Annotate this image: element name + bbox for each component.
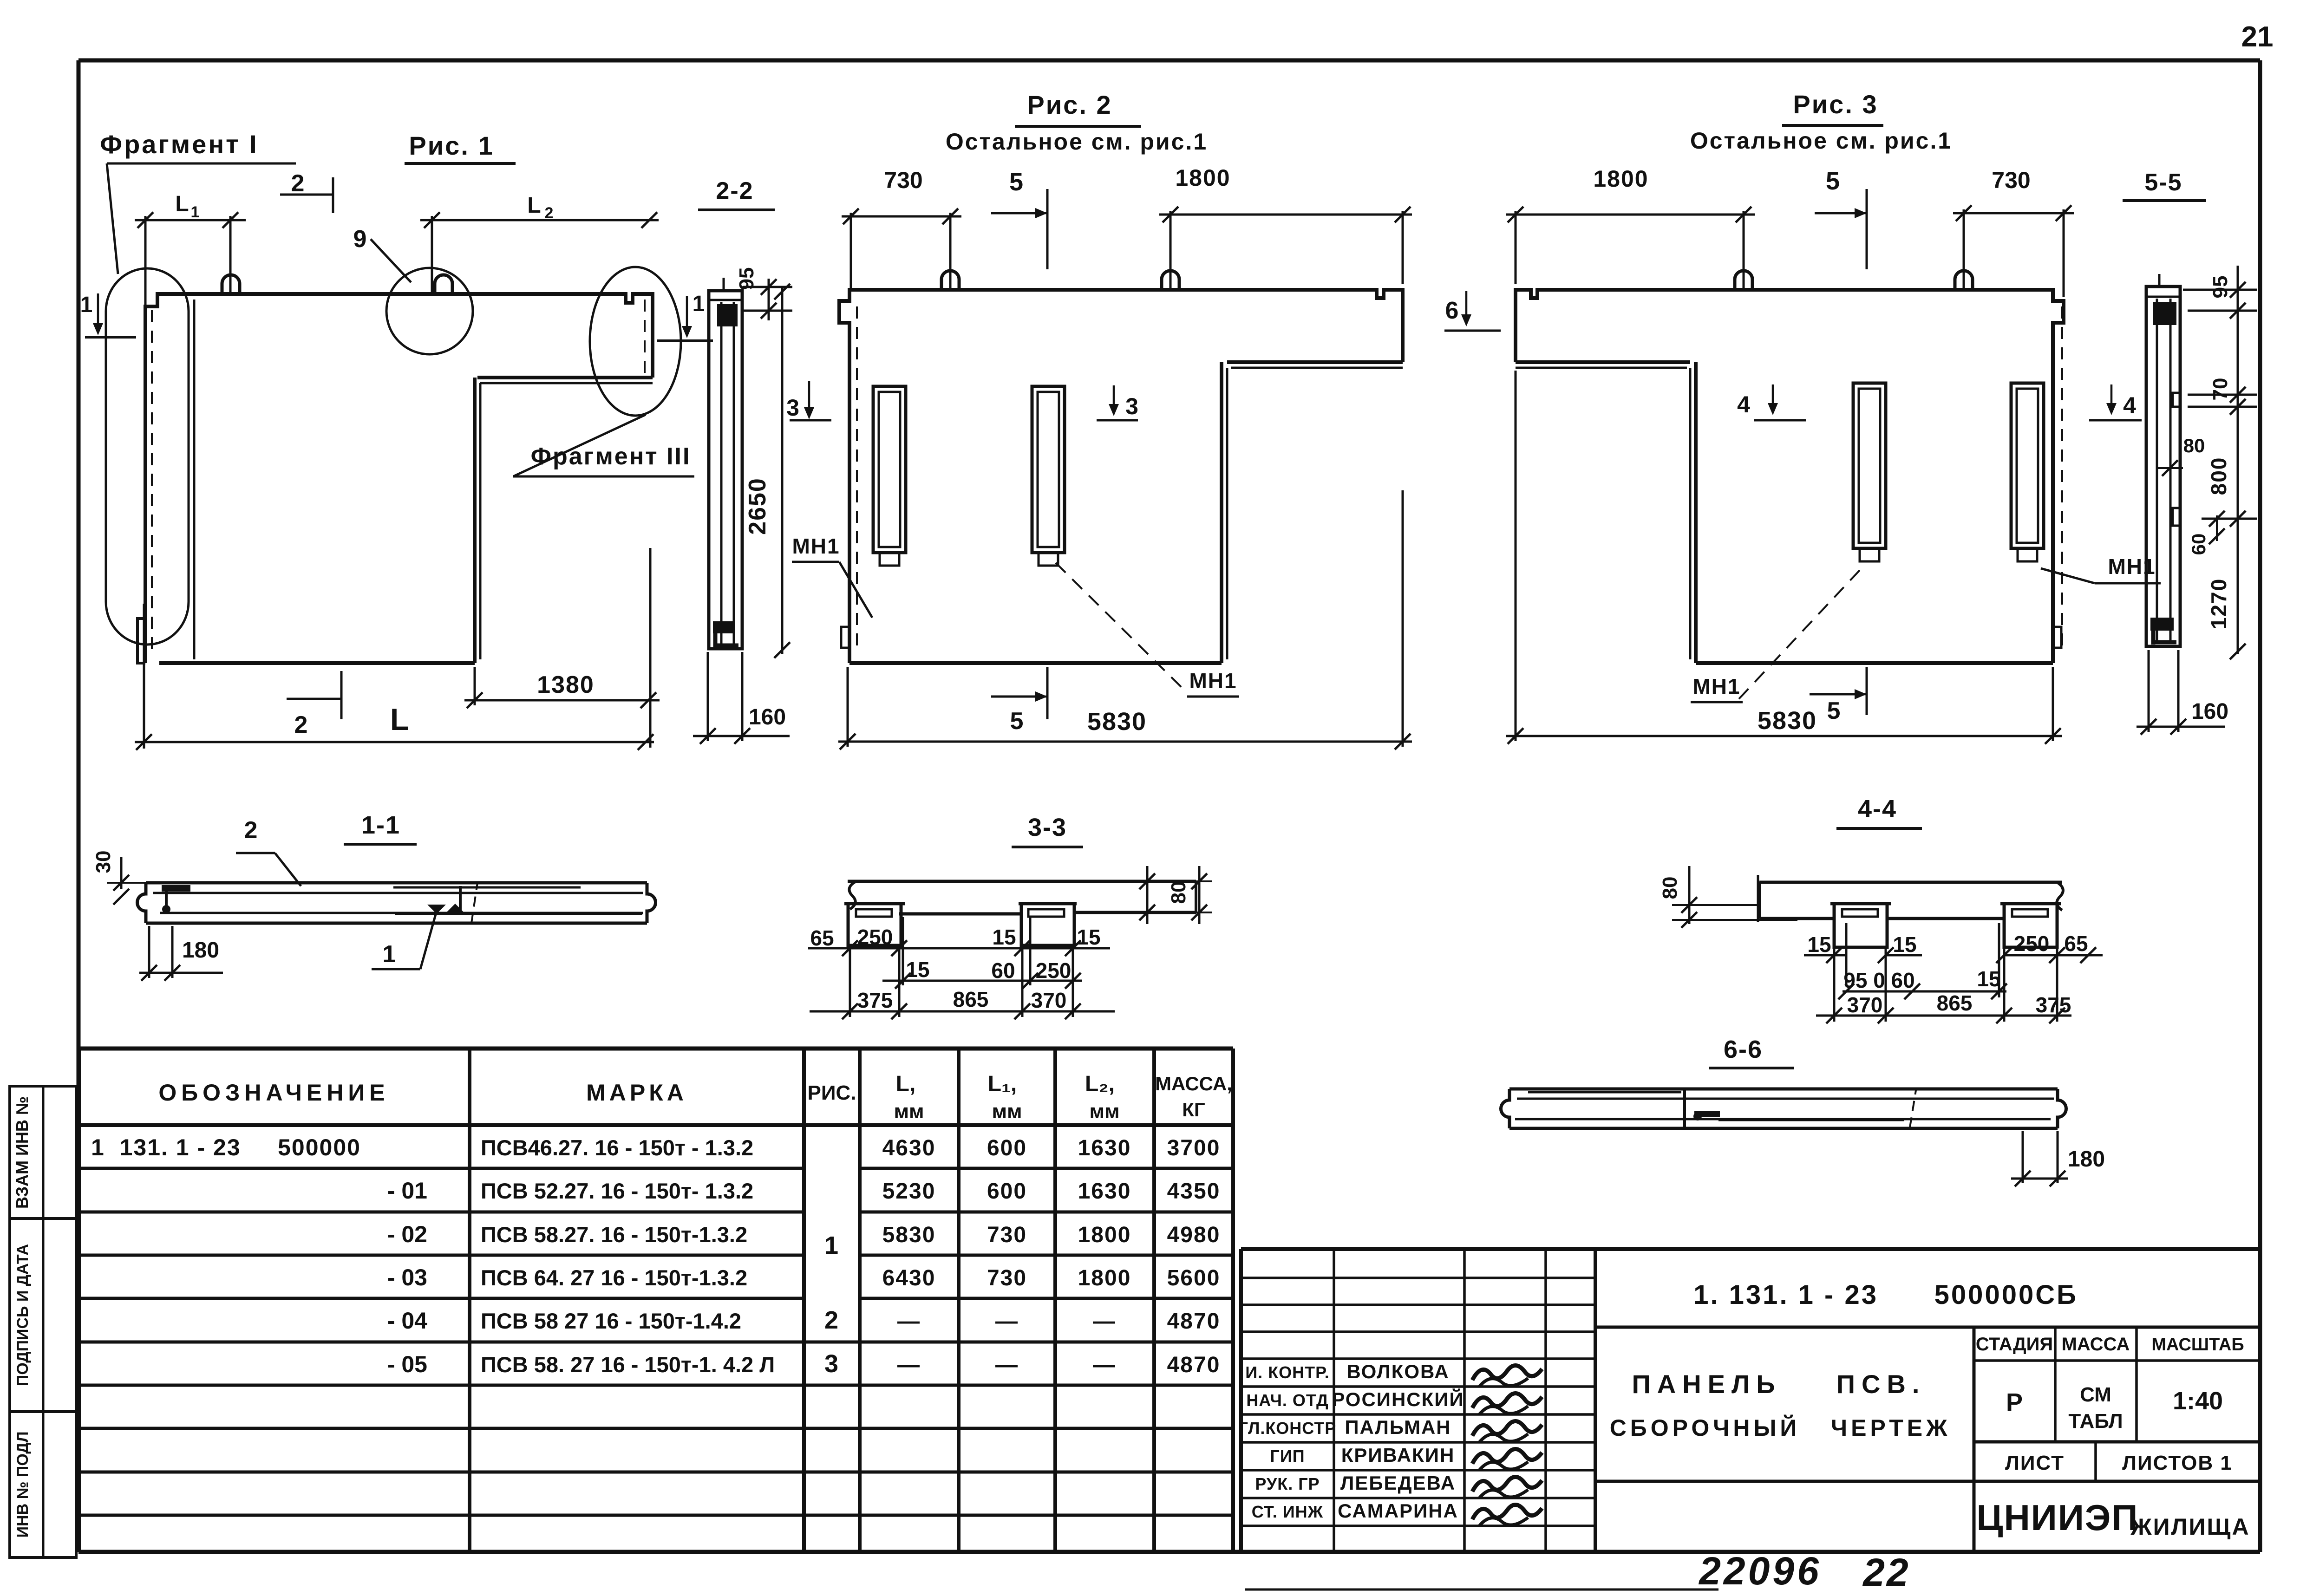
svg-text:2: 2 bbox=[291, 170, 305, 197]
svg-text:22096: 22096 bbox=[1698, 1549, 1822, 1593]
svg-text:РИС.: РИС. bbox=[808, 1081, 856, 1104]
svg-text:ПОДПИСЬ И ДАТА: ПОДПИСЬ И ДАТА bbox=[14, 1244, 32, 1386]
svg-text:5830: 5830 bbox=[882, 1223, 936, 1247]
svg-text:250: 250 bbox=[857, 925, 893, 949]
svg-text:22: 22 bbox=[1862, 1550, 1910, 1594]
svg-text:95: 95 bbox=[2209, 276, 2232, 299]
svg-text:РОСИНСКИЙ: РОСИНСКИЙ bbox=[1332, 1388, 1464, 1410]
svg-text:3: 3 bbox=[786, 395, 799, 421]
svg-text:730: 730 bbox=[884, 167, 922, 193]
svg-text:1800: 1800 bbox=[1593, 166, 1648, 192]
svg-text:МН1: МН1 bbox=[792, 534, 840, 558]
svg-text:60: 60 bbox=[2188, 534, 2209, 555]
svg-text:СТ. ИНЖ: СТ. ИНЖ bbox=[1252, 1502, 1323, 1521]
svg-text:ПСВ 58 27 16 - 150т-1.4.2: ПСВ 58 27 16 - 150т-1.4.2 bbox=[481, 1309, 741, 1333]
svg-text:5830: 5830 bbox=[1087, 708, 1147, 736]
svg-text:ПСВ 52.27. 16 - 150т- 1.3.2: ПСВ 52.27. 16 - 150т- 1.3.2 bbox=[481, 1179, 753, 1203]
svg-text:4870: 4870 bbox=[1167, 1309, 1221, 1334]
svg-text:15: 15 bbox=[1893, 932, 1916, 957]
svg-text:65: 65 bbox=[810, 926, 834, 950]
svg-text:САМАРИНА: САМАРИНА bbox=[1338, 1500, 1458, 1522]
svg-text:Остальное см. рис.1: Остальное см. рис.1 bbox=[1690, 128, 1952, 154]
svg-text:Рис. 1: Рис. 1 bbox=[409, 131, 494, 160]
svg-text:ЛИСТОВ 1: ЛИСТОВ 1 bbox=[2122, 1452, 2233, 1474]
svg-text:МН1: МН1 bbox=[2108, 554, 2156, 579]
svg-text:370: 370 bbox=[1031, 988, 1067, 1012]
svg-text:370: 370 bbox=[1847, 993, 1883, 1017]
svg-text:- 03: - 03 bbox=[387, 1264, 427, 1290]
svg-text:1270: 1270 bbox=[2207, 578, 2231, 629]
svg-text:—: — bbox=[995, 1309, 1019, 1334]
svg-text:4350: 4350 bbox=[1167, 1179, 1221, 1204]
svg-text:ЖИЛИЩА: ЖИЛИЩА bbox=[2130, 1514, 2250, 1540]
svg-text:9: 9 bbox=[353, 226, 367, 253]
svg-text:РУК. ГР: РУК. ГР bbox=[1255, 1474, 1320, 1493]
svg-text:- 02: - 02 bbox=[387, 1221, 427, 1247]
svg-text:5830: 5830 bbox=[1758, 707, 1817, 735]
svg-text:2: 2 bbox=[244, 817, 258, 844]
svg-text:1630: 1630 bbox=[1078, 1179, 1131, 1204]
svg-text:3700: 3700 bbox=[1167, 1136, 1221, 1160]
svg-text:1800: 1800 bbox=[1175, 165, 1230, 191]
svg-text:865: 865 bbox=[1937, 991, 1973, 1015]
svg-text:6: 6 bbox=[1445, 297, 1459, 324]
svg-text:И. КОНТР.: И. КОНТР. bbox=[1245, 1363, 1329, 1382]
svg-text:5: 5 bbox=[1010, 708, 1024, 735]
svg-text:- 01: - 01 bbox=[387, 1178, 427, 1204]
svg-text:4-4: 4-4 bbox=[1858, 795, 1897, 823]
svg-text:21: 21 bbox=[2241, 21, 2274, 53]
svg-text:1: 1 bbox=[191, 203, 200, 221]
svg-text:730: 730 bbox=[987, 1266, 1027, 1290]
svg-text:L: L bbox=[527, 193, 541, 218]
svg-text:ЦНИИЭП: ЦНИИЭП bbox=[1977, 1497, 2139, 1538]
svg-text:160: 160 bbox=[2191, 699, 2228, 724]
svg-text:3: 3 bbox=[1125, 393, 1138, 419]
svg-text:ВОЛКОВА: ВОЛКОВА bbox=[1346, 1361, 1449, 1382]
svg-text:80: 80 bbox=[2183, 435, 2205, 456]
svg-text:4: 4 bbox=[1737, 391, 1750, 417]
svg-text:ЛИСТ: ЛИСТ bbox=[2005, 1452, 2065, 1474]
svg-text:- 05: - 05 bbox=[387, 1351, 427, 1377]
svg-text:6-6: 6-6 bbox=[1724, 1036, 1763, 1063]
svg-text:МАССА,: МАССА, bbox=[1155, 1073, 1232, 1094]
svg-text:4870: 4870 bbox=[1167, 1353, 1221, 1377]
svg-text:5600: 5600 bbox=[1167, 1266, 1221, 1290]
svg-text:5: 5 bbox=[1827, 697, 1841, 724]
svg-text:15: 15 bbox=[1807, 932, 1831, 957]
svg-text:ЛЕБЕДЕВА: ЛЕБЕДЕВА bbox=[1340, 1472, 1456, 1494]
svg-text:Фрагмент I: Фрагмент I bbox=[100, 130, 258, 159]
svg-text:1:40: 1:40 bbox=[2173, 1387, 2223, 1415]
svg-text:Рис. 2: Рис. 2 bbox=[1027, 90, 1112, 119]
svg-text:30: 30 bbox=[92, 851, 115, 873]
svg-text:ПСВ 64. 27 16 - 150т-1.3.2: ПСВ 64. 27 16 - 150т-1.3.2 bbox=[481, 1265, 747, 1290]
svg-text:МН1: МН1 bbox=[1189, 669, 1237, 693]
svg-text:—: — bbox=[897, 1309, 921, 1334]
svg-text:375: 375 bbox=[857, 988, 893, 1012]
svg-text:60: 60 bbox=[991, 958, 1015, 983]
svg-text:КГ: КГ bbox=[1182, 1099, 1205, 1120]
svg-text:МН1: МН1 bbox=[1692, 674, 1740, 698]
svg-text:1: 1 bbox=[383, 941, 396, 968]
svg-text:3: 3 bbox=[824, 1350, 838, 1378]
svg-text:15: 15 bbox=[1977, 967, 2000, 991]
svg-text:1800: 1800 bbox=[1078, 1223, 1131, 1247]
svg-text:70: 70 bbox=[2209, 378, 2232, 401]
svg-text:3-3: 3-3 bbox=[1028, 814, 1067, 841]
svg-text:1800: 1800 bbox=[1078, 1266, 1131, 1290]
svg-text:2: 2 bbox=[294, 711, 308, 738]
svg-text:мм: мм bbox=[894, 1100, 924, 1123]
svg-text:1630: 1630 bbox=[1078, 1136, 1131, 1160]
svg-text:5: 5 bbox=[1009, 168, 1023, 196]
svg-text:ИНВ № ПОДЛ: ИНВ № ПОДЛ bbox=[14, 1432, 32, 1538]
svg-text:- 04: - 04 bbox=[387, 1308, 427, 1334]
svg-text:730: 730 bbox=[987, 1223, 1027, 1247]
svg-text:МАРКА: МАРКА bbox=[586, 1080, 687, 1106]
svg-text:4630: 4630 bbox=[882, 1136, 936, 1160]
svg-text:ПСВ 58. 27 16 - 150т-1. 4.2 Л: ПСВ 58. 27 16 - 150т-1. 4.2 Л bbox=[481, 1352, 775, 1377]
svg-text:Рис. 3: Рис. 3 bbox=[1793, 90, 1878, 119]
svg-text:5-5: 5-5 bbox=[2144, 169, 2182, 196]
svg-text:ПАНЕЛЬ ПСВ.: ПАНЕЛЬ ПСВ. bbox=[1632, 1369, 1926, 1399]
svg-text:СБОРОЧНЫЙ ЧЕРТЕЖ: СБОРОЧНЫЙ ЧЕРТЕЖ bbox=[1610, 1414, 1951, 1441]
svg-text:160: 160 bbox=[749, 705, 786, 730]
svg-text:15: 15 bbox=[906, 958, 929, 982]
svg-text:1. 131. 1 - 23 500000СБ: 1. 131. 1 - 23 500000СБ bbox=[1693, 1280, 2078, 1310]
svg-text:180: 180 bbox=[2068, 1147, 2105, 1172]
svg-text:1 131. 1 - 23 500000: 1 131. 1 - 23 500000 bbox=[91, 1134, 361, 1160]
svg-text:65: 65 bbox=[2064, 932, 2088, 956]
svg-text:800: 800 bbox=[2207, 457, 2231, 495]
svg-text:80: 80 bbox=[1167, 881, 1190, 904]
svg-text:МАСШТАБ: МАСШТАБ bbox=[2151, 1335, 2244, 1355]
svg-text:15: 15 bbox=[1077, 925, 1100, 949]
svg-text:СМ: СМ bbox=[2080, 1383, 2111, 1406]
svg-text:L₂,: L₂, bbox=[1085, 1072, 1115, 1096]
svg-text:ТАБЛ: ТАБЛ bbox=[2068, 1410, 2123, 1433]
svg-text:2: 2 bbox=[824, 1306, 838, 1334]
svg-text:Остальное см. рис.1: Остальное см. рис.1 bbox=[946, 129, 1208, 155]
svg-text:600: 600 bbox=[987, 1136, 1027, 1160]
svg-text:80: 80 bbox=[1659, 877, 1681, 899]
svg-text:ПСВ 58.27. 16 - 150т-1.3.2: ПСВ 58.27. 16 - 150т-1.3.2 bbox=[481, 1222, 747, 1247]
svg-text:865: 865 bbox=[953, 987, 989, 1011]
svg-text:СТАДИЯ: СТАДИЯ bbox=[1976, 1334, 2053, 1355]
svg-text:—: — bbox=[1093, 1353, 1116, 1377]
svg-text:L: L bbox=[175, 192, 189, 216]
svg-text:2-2: 2-2 bbox=[716, 177, 753, 204]
svg-text:ПАЛЬМАН: ПАЛЬМАН bbox=[1345, 1416, 1451, 1438]
svg-text:6430: 6430 bbox=[882, 1266, 936, 1290]
svg-text:15: 15 bbox=[992, 925, 1016, 949]
svg-text:375: 375 bbox=[2036, 993, 2071, 1017]
svg-text:1: 1 bbox=[80, 293, 93, 317]
svg-text:5: 5 bbox=[1826, 167, 1840, 195]
svg-text:1: 1 bbox=[693, 292, 705, 316]
svg-text:5230: 5230 bbox=[882, 1179, 936, 1204]
svg-text:1: 1 bbox=[824, 1231, 838, 1259]
svg-text:ВЗАМ ИНВ №: ВЗАМ ИНВ № bbox=[13, 1096, 32, 1209]
svg-text:Р: Р bbox=[2006, 1388, 2023, 1416]
svg-text:мм: мм bbox=[992, 1100, 1022, 1123]
svg-text:L: L bbox=[390, 702, 409, 736]
svg-text:1380: 1380 bbox=[537, 671, 595, 698]
svg-text:МАССА: МАССА bbox=[2062, 1334, 2130, 1355]
svg-text:250: 250 bbox=[2014, 932, 2050, 956]
svg-text:—: — bbox=[1093, 1309, 1116, 1334]
svg-text:ПСВ46.27. 16 - 150т - 1.3.2: ПСВ46.27. 16 - 150т - 1.3.2 bbox=[481, 1135, 753, 1160]
svg-text:95 0 60: 95 0 60 bbox=[1843, 968, 1914, 992]
svg-text:мм: мм bbox=[1089, 1100, 1119, 1123]
svg-text:ГИП: ГИП bbox=[1270, 1446, 1305, 1466]
svg-text:НАЧ. ОТД: НАЧ. ОТД bbox=[1246, 1391, 1328, 1410]
svg-text:—: — bbox=[897, 1353, 921, 1377]
svg-text:1-1: 1-1 bbox=[361, 811, 400, 839]
svg-text:4: 4 bbox=[2123, 392, 2136, 418]
svg-text:—: — bbox=[995, 1353, 1019, 1377]
svg-text:2650: 2650 bbox=[744, 477, 771, 535]
svg-text:L,: L, bbox=[896, 1072, 916, 1096]
svg-text:КРИВАКИН: КРИВАКИН bbox=[1341, 1444, 1455, 1466]
svg-text:ГЛ.КОНСТР: ГЛ.КОНСТР bbox=[1239, 1419, 1337, 1438]
svg-text:180: 180 bbox=[182, 938, 219, 963]
svg-text:L₁,: L₁, bbox=[988, 1072, 1017, 1096]
svg-text:ОБОЗНАЧЕНИЕ: ОБОЗНАЧЕНИЕ bbox=[158, 1080, 389, 1106]
svg-text:730: 730 bbox=[1992, 167, 2030, 193]
svg-text:250: 250 bbox=[1036, 958, 1072, 983]
svg-text:4980: 4980 bbox=[1167, 1223, 1221, 1247]
svg-text:600: 600 bbox=[987, 1179, 1027, 1204]
